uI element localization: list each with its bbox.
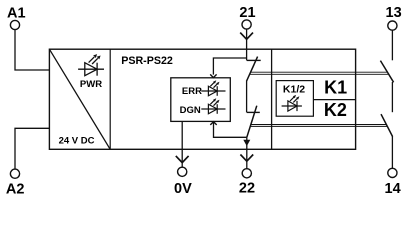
logic box ERR DGN (171, 78, 231, 122)
contact 21-22 upper blade (247, 57, 258, 81)
power supply divider (109, 49, 111, 149)
main device box (49, 49, 355, 149)
svg-text:PSR-PS22: PSR-PS22 (121, 55, 173, 67)
chevron arrow above terminal 22 (240, 155, 253, 162)
branch wire 21 to logic box (213, 58, 246, 75)
contact 13-14 upper blade (380, 61, 393, 83)
LED ERR arrowheads (213, 80, 216, 83)
LED K1/2 symbol (282, 97, 302, 111)
LED PWR symbol (78, 57, 104, 76)
svg-text:K1/2: K1/2 (283, 83, 305, 95)
svg-text:21: 21 (239, 5, 255, 21)
LED PWR arrowheads (93, 54, 97, 58)
LED K1/2 arrowheads (293, 95, 296, 98)
svg-text:K1: K1 (324, 78, 347, 98)
wire logic box to 0V (181, 121, 183, 167)
wire junction down to 22 (246, 137, 248, 149)
svg-text:DGN: DGN (180, 105, 201, 116)
chevron arrow above terminal 0V (176, 156, 189, 163)
contact 13-14 lower blade (381, 114, 393, 137)
terminal circle 22 (242, 169, 251, 178)
wire between contacts 21-22 (246, 81, 248, 113)
svg-text:13: 13 (386, 5, 402, 21)
terminal circle 0V (178, 167, 187, 176)
svg-text:PWR: PWR (80, 79, 102, 90)
contact 21-22 lower fixed tick (247, 111, 260, 113)
svg-text:ERR: ERR (182, 86, 202, 97)
wire 22 below box (246, 149, 248, 168)
svg-text:14: 14 (385, 181, 401, 197)
terminal circle 21 (242, 20, 251, 29)
relay K1/2 indicator box (276, 81, 313, 117)
wire down to 14 (391, 137, 393, 169)
contact 21-22 lower blade (247, 106, 257, 138)
svg-text:A2: A2 (6, 181, 25, 197)
terminal circle 14 (388, 168, 397, 177)
wire 21 down (246, 29, 248, 60)
mechanical linkage lower pair (251, 124, 387, 126)
svg-text:22: 22 (239, 181, 255, 197)
chevron arrow on wire 21 (240, 33, 253, 40)
wire A2 to power unit (15, 128, 49, 169)
power supply diagonal (49, 49, 110, 149)
LED ERR symbol (201, 82, 225, 96)
arrowhead into logic box top (210, 74, 216, 77)
wire between contacts 13-14 (391, 82, 393, 112)
wire A1 to power unit (15, 30, 49, 70)
terminal circle A1 (10, 20, 19, 29)
feedback wire to DGN (214, 122, 247, 137)
LED DGN symbol (201, 100, 225, 114)
arrowhead into logic box bottom (210, 122, 216, 125)
svg-text:0V: 0V (174, 181, 192, 197)
terminal circle 13 (388, 21, 397, 30)
mechanical linkage upper pair (250, 71, 388, 73)
LED DGN arrowheads (213, 98, 216, 101)
svg-text:A1: A1 (7, 5, 26, 21)
filled arrow on wire to 22 (243, 140, 250, 146)
relay compartment divider (271, 49, 273, 149)
svg-text:24 V DC: 24 V DC (59, 136, 95, 147)
terminal circle A2 (10, 169, 19, 178)
divider between K1 and K2 cells (313, 99, 355, 101)
wire 13 down (391, 30, 393, 60)
contact 21-22 upper fixed tick (247, 59, 261, 61)
svg-text:K2: K2 (324, 100, 347, 120)
